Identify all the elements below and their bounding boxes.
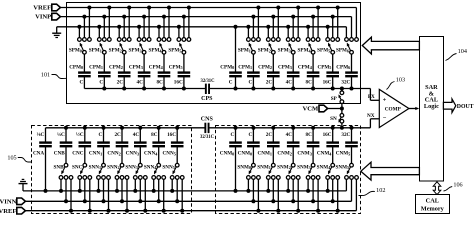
svg-text:32/31C: 32/31C	[200, 79, 215, 84]
svg-text:SPM1: SPM1	[238, 48, 251, 54]
svg-text:CNA: CNA	[33, 151, 44, 157]
capacitor CPS 32/31C (top bridge)	[200, 79, 215, 102]
switch SNM0 (bottom-right)	[237, 163, 260, 212]
svg-text:SNM4: SNM4	[317, 165, 332, 171]
block CAL Memory	[416, 195, 450, 214]
switch SPM4 (top-left)	[148, 6, 171, 55]
svg-text:CNM4: CNM4	[317, 151, 332, 157]
svg-text:SPM2: SPM2	[258, 48, 271, 54]
svg-text:SNM3: SNM3	[297, 165, 311, 171]
switch SNN5 (bottom-left)	[162, 163, 184, 212]
svg-text:32/31C: 32/31C	[200, 135, 215, 140]
svg-text:CNN4: CNN4	[144, 151, 158, 157]
svg-text:C: C	[79, 80, 83, 86]
capacitor CNS 32/31C (bottom bridge)	[200, 117, 215, 140]
port VREF	[33, 4, 60, 11]
svg-text:105: 105	[7, 155, 16, 162]
capacitor CPM5 value 16C (top-left)	[169, 54, 191, 90]
svg-text:⅛C: ⅛C	[37, 132, 45, 138]
svg-text:CPM1: CPM1	[238, 65, 252, 71]
svg-text:CNM5: CNM5	[336, 151, 350, 157]
node NX label	[367, 113, 375, 119]
svg-text:101: 101	[41, 72, 50, 79]
svg-text:CPM0: CPM0	[69, 65, 83, 71]
svg-text:106: 106	[453, 182, 462, 189]
block arrow SAR to bottom array	[361, 162, 420, 180]
switch SPM1 (top-left)	[89, 6, 112, 55]
svg-text:SNM1: SNM1	[257, 165, 271, 171]
svg-text:CNM2: CNM2	[277, 151, 291, 157]
svg-text:CPM4: CPM4	[298, 65, 313, 71]
wire VINN rail (bottom)	[25, 179, 351, 201]
switch SNN2 (bottom-left)	[107, 163, 129, 212]
svg-text:103: 103	[396, 76, 405, 83]
switch SNM4 (bottom-right)	[317, 163, 340, 212]
switch SPM3 (top-left)	[129, 6, 152, 55]
svg-text:SNM2: SNM2	[277, 165, 291, 171]
wire top-right bus to node PX	[210, 89, 379, 101]
switch SNN1 (bottom-left)	[89, 163, 111, 212]
svg-text:DOUT: DOUT	[457, 104, 474, 110]
svg-text:SPM4: SPM4	[298, 48, 312, 54]
svg-text:COMP: COMP	[385, 106, 402, 112]
double arrow SAR-CAL Memory	[433, 182, 441, 195]
switch SP (top plate sampling)	[331, 87, 344, 109]
switch SN	[330, 109, 344, 130]
svg-text:8C: 8C	[306, 132, 313, 138]
capacitor CPM4 value 8C (top-right)	[298, 54, 320, 90]
label 104 with leader	[446, 48, 467, 61]
switch SNM5 (bottom-right)	[335, 163, 358, 179]
ground (bottom-left)	[19, 179, 28, 191]
capacitor CPM6 value 32C (top-right)	[336, 54, 358, 90]
svg-text:SNN1: SNN1	[89, 165, 101, 171]
svg-text:CNC: CNC	[72, 151, 83, 157]
svg-text:SNN3: SNN3	[125, 165, 137, 171]
svg-text:2C: 2C	[266, 80, 273, 86]
svg-text:16C: 16C	[167, 132, 176, 138]
label 101 with leader	[41, 72, 67, 79]
svg-text:−: −	[383, 115, 387, 122]
svg-text:CPM2: CPM2	[258, 65, 272, 71]
svg-text:102: 102	[376, 187, 385, 194]
svg-text:C: C	[99, 132, 103, 138]
svg-text:4C: 4C	[133, 132, 140, 138]
wire comparator output	[409, 107, 419, 110]
svg-text:CNM0: CNM0	[220, 151, 234, 157]
svg-text:CPM2: CPM2	[109, 65, 123, 71]
capacitor CNA value 1/8C (bottom-left dummy, tied to ground rail)	[33, 128, 52, 193]
capacitor CNM0 value C (bottom-right dummy, tied to ground rail)	[220, 126, 242, 193]
svg-text:PX: PX	[368, 94, 375, 100]
svg-text:VCM: VCM	[302, 106, 319, 113]
capacitor CNM2 value 4C (bottom-right)	[277, 126, 299, 164]
capacitor CNM3 value 8C (bottom-right)	[297, 126, 319, 164]
svg-text:SPM3: SPM3	[129, 48, 142, 54]
svg-text:C: C	[99, 80, 103, 86]
capacitor CPM2 value 2C (top-left)	[109, 54, 131, 90]
node PX label	[368, 94, 375, 100]
svg-text:SNN4: SNN4	[144, 165, 157, 171]
svg-text:8C: 8C	[306, 80, 313, 86]
svg-text:4C: 4C	[286, 80, 293, 86]
capacitor CPM5 value 16C (top-right)	[317, 54, 339, 90]
capacitor CNC value &#189;C (bottom-left)	[72, 126, 91, 164]
capacitor CPM1 value C (top-left)	[89, 54, 111, 90]
svg-text:VINN: VINN	[0, 199, 17, 206]
label 106 with leader	[444, 182, 463, 191]
capacitor CNN1 value C (bottom-left)	[89, 126, 110, 164]
label 105 with leader	[7, 155, 31, 163]
port VREF (bottom)	[0, 207, 25, 215]
op-amp comparator U103 COMP	[379, 89, 409, 127]
svg-text:¼C: ¼C	[57, 132, 65, 138]
switch SPM1 (top-right)	[238, 6, 261, 55]
svg-text:SN: SN	[330, 116, 337, 122]
bottom-right dashed box 102	[216, 126, 361, 214]
svg-text:CNN5: CNN5	[163, 151, 176, 157]
svg-text:CPM0: CPM0	[220, 65, 234, 71]
switch SPM2 (top-left)	[109, 6, 132, 55]
svg-text:SPM5: SPM5	[168, 48, 181, 54]
svg-text:CPS: CPS	[201, 96, 213, 102]
wire GND rail (bottom)	[23, 179, 346, 191]
svg-text:Memory: Memory	[421, 205, 445, 212]
wire bottom-left bus (NX side)	[46, 127, 205, 129]
wire VREF rail (top)	[60, 8, 356, 38]
svg-text:CPM6: CPM6	[336, 65, 350, 71]
switch SNC (bottom-left)	[72, 163, 92, 212]
capacitor CPM1 value C (top-right)	[238, 54, 260, 90]
switch SNM2 (bottom-right)	[277, 163, 300, 212]
svg-text:8C: 8C	[151, 132, 158, 138]
svg-text:SP: SP	[331, 96, 338, 102]
svg-text:16C: 16C	[174, 80, 183, 86]
svg-text:SNM5: SNM5	[335, 165, 349, 171]
capacitor CPM3 value 4C (top-right)	[278, 54, 300, 90]
svg-text:SNN5: SNN5	[162, 165, 174, 171]
svg-text:CNB: CNB	[54, 151, 65, 157]
switch SNN4 (bottom-left)	[144, 163, 166, 212]
switch SPM6 (top-right)	[336, 38, 358, 55]
capacitor CPM4 value 8C (top-left)	[149, 54, 171, 90]
svg-text:C: C	[248, 132, 252, 138]
svg-text:2C: 2C	[266, 132, 273, 138]
svg-text:VINP: VINP	[35, 13, 51, 20]
svg-text:4C: 4C	[286, 132, 293, 138]
svg-text:CPM1: CPM1	[89, 65, 103, 71]
svg-text:Logic: Logic	[424, 103, 439, 110]
switch SNB (bottom-left)	[54, 163, 73, 212]
port VINP	[35, 13, 60, 20]
svg-text:SPM3: SPM3	[278, 48, 291, 54]
switch SPM5 (top-left)	[168, 6, 191, 55]
svg-text:SPM2: SPM2	[109, 48, 122, 54]
svg-text:104: 104	[458, 48, 467, 55]
wire VINP rail (top)	[60, 17, 351, 38]
capacitor CNN4 value 8C (bottom-left)	[144, 126, 165, 164]
svg-text:16C: 16C	[323, 80, 332, 86]
svg-text:SPM6: SPM6	[336, 48, 349, 54]
svg-text:32C: 32C	[341, 132, 350, 138]
label 103 with leader	[387, 76, 406, 89]
svg-text:CNM1: CNM1	[258, 151, 272, 157]
svg-text:32C: 32C	[341, 80, 350, 86]
svg-text:CPM3: CPM3	[129, 65, 143, 71]
port VCM	[302, 105, 343, 112]
svg-text:CNS: CNS	[201, 117, 214, 123]
svg-text:NX: NX	[367, 113, 375, 119]
label 102 with leader	[359, 187, 386, 195]
svg-text:2C: 2C	[117, 80, 124, 86]
capacitor CPM0 value C (top-right dummy, tied to ground rail)	[220, 25, 242, 91]
switch SPM5 (top-right)	[317, 6, 340, 55]
svg-text:CNM3: CNM3	[297, 151, 311, 157]
svg-text:SNB: SNB	[54, 165, 65, 171]
block arrow DOUT	[443, 99, 473, 113]
switch SPM3 (top-right)	[278, 6, 301, 55]
svg-text:SNN2: SNN2	[107, 165, 119, 171]
svg-text:CPM5: CPM5	[317, 65, 331, 71]
capacitor CNB value &#188;C (bottom-left)	[54, 126, 73, 164]
svg-text:C: C	[248, 80, 252, 86]
svg-text:CNM0: CNM0	[238, 151, 252, 157]
block arrow SAR to top array	[362, 37, 419, 54]
switch SPM4 (top-right)	[298, 6, 321, 55]
svg-text:CNN1: CNN1	[89, 151, 102, 157]
capacitor CNM1 value 2C (bottom-right)	[258, 126, 280, 164]
svg-text:4C: 4C	[137, 80, 144, 86]
switch SNM1 (bottom-right)	[257, 163, 280, 212]
svg-text:8C: 8C	[156, 80, 163, 86]
capacitor CNM4 value 16C (bottom-right)	[317, 126, 339, 164]
capacitor CNM5 value 32C (bottom-right)	[336, 126, 358, 164]
switch SPM0 (top-left)	[69, 6, 92, 55]
capacitor CNN2 value 2C (bottom-left)	[107, 126, 128, 164]
svg-text:CPM3: CPM3	[278, 65, 292, 71]
ground (top-left)	[52, 27, 61, 38]
svg-text:SPM4: SPM4	[148, 48, 162, 54]
svg-text:SPM5: SPM5	[317, 48, 330, 54]
svg-text:CNN3: CNN3	[126, 151, 139, 157]
capacitor CPM3 value 4C (top-left)	[129, 54, 151, 90]
switch SPM2 (top-right)	[258, 6, 281, 55]
capacitor CNN3 value 4C (bottom-left)	[126, 126, 147, 164]
svg-text:SPM0: SPM0	[69, 48, 82, 54]
top array box 101	[67, 3, 361, 104]
svg-text:VREF: VREF	[0, 208, 16, 215]
block SAR & CAL Logic (104)	[420, 37, 444, 182]
capacitor CPM0 value C (top-left)	[69, 54, 91, 88]
svg-text:VREF: VREF	[33, 4, 51, 11]
svg-text:C: C	[229, 80, 233, 86]
wire GND rail (top)	[57, 27, 347, 38]
svg-text:C: C	[231, 132, 235, 138]
svg-text:16C: 16C	[323, 132, 332, 138]
svg-text:SNM0: SNM0	[237, 165, 251, 171]
wire top-left bus (PX side)	[84, 88, 205, 90]
svg-text:CAL: CAL	[426, 198, 439, 205]
switch SNM3 (bottom-right)	[297, 163, 320, 212]
svg-text:+: +	[383, 97, 387, 104]
port VINN	[0, 198, 25, 206]
svg-text:SPM1: SPM1	[89, 48, 102, 54]
svg-text:SNC: SNC	[72, 165, 83, 171]
capacitor CPM2 value 2C (top-right)	[258, 54, 280, 90]
svg-text:2C: 2C	[114, 132, 121, 138]
svg-text:CNN2: CNN2	[107, 151, 120, 157]
svg-text:½C: ½C	[76, 131, 84, 138]
capacitor CNN5 value 16C (bottom-left)	[163, 126, 184, 164]
switch SNN3 (bottom-left)	[125, 163, 147, 212]
capacitor CNM0 value C (bottom-right)	[238, 126, 260, 164]
wire VREF rail (bottom)	[25, 179, 356, 210]
wire bottom-right bus to node NX	[210, 119, 380, 128]
bottom-left dashed box	[32, 126, 192, 214]
svg-text:CPM4: CPM4	[149, 65, 164, 71]
svg-text:CPM5: CPM5	[169, 65, 183, 71]
